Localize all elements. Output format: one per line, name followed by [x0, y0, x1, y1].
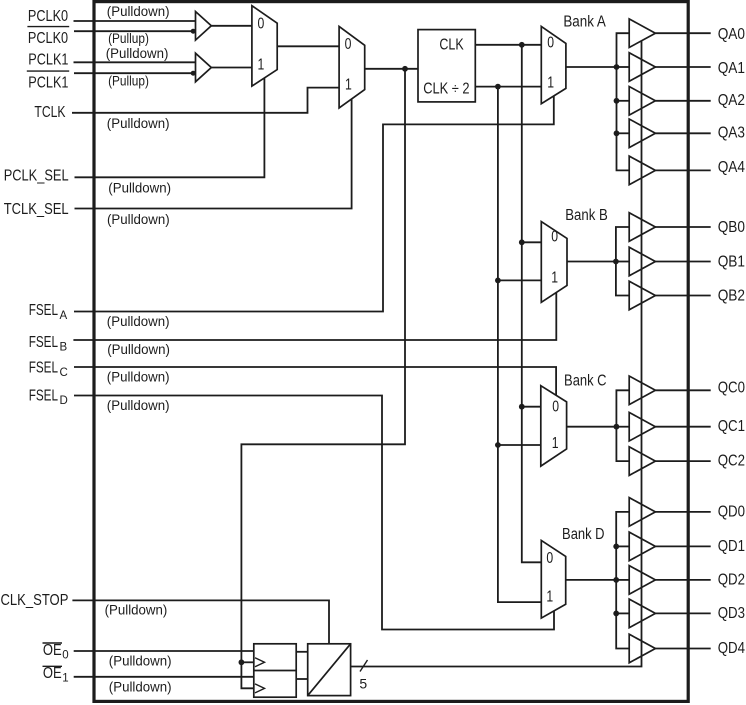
wire QC1 input [616, 426, 629, 428]
svg-text:QD0: QD0 [718, 503, 746, 520]
latch clock chevron upper [255, 658, 265, 667]
output buffer QA4 [629, 156, 655, 185]
svg-text:QA2: QA2 [718, 92, 745, 109]
output buffer QA3 [629, 119, 655, 148]
wire QC0 output [655, 389, 710, 391]
output buffer QA2 [629, 87, 655, 116]
wire enable bus to output buffers [351, 41, 642, 667]
junction dot QC bus at QC1 [614, 424, 620, 430]
pin label FSEL_C [29, 359, 68, 379]
svg-text:Bank B: Bank B [565, 207, 608, 224]
svg-text:PCLK0: PCLK0 [28, 30, 68, 47]
junction dot Bank B input 1 [495, 278, 501, 284]
svg-text:OE: OE [43, 642, 62, 659]
wire mux U2 output to divider [365, 68, 418, 70]
output buffer QB1 [629, 247, 655, 276]
svg-text:FSEL: FSEL [29, 388, 59, 405]
svg-text:QC2: QC2 [718, 453, 745, 470]
svg-text:TCLK_SEL: TCLK_SEL [4, 201, 69, 218]
wire buffer U3 output to mux U1 input 0 [211, 25, 252, 27]
wire PCLK_SEL to mux U1 select [75, 78, 265, 177]
pin label OE0 with overline [43, 642, 69, 662]
svg-text:QA3: QA3 [718, 125, 745, 142]
bus width slash mark [360, 660, 368, 672]
output buffer QD2 [629, 566, 655, 595]
wire buffer U4 output to mux U1 input 1 [211, 67, 252, 69]
wire QD0 output [655, 511, 710, 513]
wire Bank D mux output to QD bus [566, 579, 617, 581]
svg-text:C: C [60, 367, 68, 379]
output buffer QB2 [629, 281, 655, 310]
wire FSEL_A to Bank A mux select [74, 96, 554, 312]
wire QA1 output [655, 66, 710, 68]
svg-text:FSEL: FSEL [29, 334, 59, 351]
wire latch upper output to stop logic [296, 651, 308, 653]
output buffer QD1 [629, 532, 655, 561]
chip boundary border [94, 2, 688, 702]
wire Bank B mux output to QB bus [567, 261, 616, 263]
svg-text:5: 5 [359, 676, 367, 692]
output buffer QC2 [629, 447, 655, 476]
wire QD2 output [655, 579, 710, 581]
pin label OE1 with overline [43, 665, 69, 685]
output buffer QB0 [629, 213, 655, 242]
svg-text:1: 1 [546, 588, 553, 605]
wire QB input bus [616, 227, 630, 296]
wire PCLK0 input [74, 20, 196, 22]
wire QD3 output [655, 612, 710, 614]
wire TCLK to mux U2 input 1 [72, 88, 339, 113]
svg-text:QA4: QA4 [718, 159, 746, 176]
junction dot QD3 input [613, 611, 619, 617]
stop logic block with diagonal [308, 644, 351, 696]
wire PCLK1 input [74, 61, 196, 63]
svg-text:QD3: QD3 [718, 605, 745, 622]
svg-text:(Pulldown): (Pulldown) [107, 212, 170, 227]
wire CLK_STOP to stop logic [72, 600, 329, 643]
wire Bank B mux input 1 from CLK div 2 bus [498, 279, 541, 281]
wire FSEL_B to Bank B mux select [73, 292, 556, 340]
pin label FSEL_A [29, 302, 68, 322]
svg-text:(Pulldown): (Pulldown) [109, 680, 172, 695]
wire Bank C mux input 1 from CLK div 2 bus [498, 444, 541, 446]
pin label PCLK0 inverted with overline [27, 27, 69, 47]
pin label FSEL_D [29, 388, 68, 408]
svg-text:(Pullup): (Pullup) [108, 31, 149, 46]
output buffer QC1 [629, 412, 655, 441]
wire FSEL_D to Bank D mux select [74, 396, 554, 630]
wire QA2 output [655, 100, 710, 102]
wire QA3 output [655, 132, 710, 134]
svg-text:QB1: QB1 [718, 254, 745, 271]
svg-text:1: 1 [258, 57, 265, 74]
svg-text:0: 0 [551, 229, 558, 246]
svg-text:QA0: QA0 [718, 26, 746, 43]
svg-text:QB0: QB0 [718, 219, 746, 236]
pin label PCLK1 inverted with overline [27, 71, 69, 92]
junction dot Bank C input 1 [495, 442, 501, 448]
wire QD4 output [655, 648, 710, 650]
wire Bank C mux input 0 from CLK bus [522, 406, 541, 408]
wire CLK vertical bus [522, 45, 542, 563]
divider block CLK / CLK div 2 [418, 30, 475, 102]
svg-text:QC1: QC1 [718, 418, 745, 435]
wire QD2 input [616, 579, 629, 581]
junction dot CLK bus tap [519, 42, 525, 48]
wire mux U1 output to mux U2 input 0 [277, 45, 339, 47]
svg-text:1: 1 [551, 269, 558, 286]
svg-text:CLK ÷ 2: CLK ÷ 2 [423, 81, 469, 98]
junction dot QA bus at QA1 [614, 64, 620, 70]
wire QD input bus [616, 512, 629, 649]
wire QA1 input [617, 66, 630, 68]
wire QA input bus [617, 33, 630, 170]
output buffer QD3 [629, 599, 655, 628]
svg-text:QD4: QD4 [718, 640, 746, 657]
junction dot QA3 input [614, 130, 620, 136]
svg-text:1: 1 [345, 77, 352, 94]
wire PCLK1 inverted input [74, 72, 196, 74]
svg-text:(Pulldown): (Pulldown) [107, 398, 170, 413]
OE latch block [254, 644, 296, 697]
svg-text:(Pulldown): (Pulldown) [107, 4, 170, 19]
mux U1 PCLK0/PCLK1 select [252, 6, 277, 86]
inverting input dot PCLK0 [191, 29, 196, 34]
wire CLK div 2 output to Bank A mux input 1 [475, 86, 541, 88]
wire OE0 input to latch [74, 650, 254, 652]
svg-text:1: 1 [547, 74, 554, 91]
junction dot Bank C input 0 [519, 404, 525, 410]
svg-text:0: 0 [62, 650, 68, 662]
wire QD1 input [616, 545, 629, 547]
svg-text:(Pulldown): (Pulldown) [107, 116, 170, 131]
svg-text:0: 0 [552, 399, 559, 416]
junction dot QD bus at QD2 [613, 577, 619, 583]
svg-text:CLK_STOP: CLK_STOP [1, 592, 69, 609]
svg-text:B: B [60, 342, 68, 354]
svg-text:(Pulldown): (Pulldown) [109, 654, 172, 669]
svg-text:0: 0 [546, 550, 553, 567]
junction dot latch clock branch [239, 659, 245, 665]
svg-text:FSEL: FSEL [29, 302, 59, 319]
wire QD1 output [655, 545, 710, 547]
mux Bank D [541, 540, 565, 618]
wire CLK output to Bank A mux input 0 [475, 44, 541, 46]
wire QD3 input [616, 612, 629, 614]
mux U2 PCLK/TCLK select [339, 26, 365, 108]
wire Bank B mux input 0 from CLK bus [522, 241, 542, 243]
svg-text:(Pullup): (Pullup) [108, 74, 149, 89]
svg-text:QB2: QB2 [718, 288, 745, 305]
svg-text:PCLK_SEL: PCLK_SEL [4, 168, 69, 185]
junction dot Bank B input 0 [519, 239, 525, 245]
svg-text:(Pulldown): (Pulldown) [108, 181, 171, 196]
svg-text:Bank A: Bank A [563, 13, 606, 30]
svg-text:0: 0 [258, 15, 265, 32]
wire FSEL_C to Bank C mux select [74, 367, 556, 395]
junction dot CLK div 2 bus tap [495, 84, 501, 90]
wire QA0 output [655, 32, 710, 34]
mux Bank A [541, 26, 566, 103]
svg-text:PCLK1: PCLK1 [28, 52, 68, 69]
wire QC1 output [655, 426, 710, 428]
svg-text:CLK: CLK [439, 36, 464, 53]
svg-text:TCLK: TCLK [34, 104, 66, 121]
wire QA4 output [655, 169, 710, 171]
junction dot QD1 input [613, 544, 619, 550]
svg-text:FSEL: FSEL [29, 359, 59, 376]
svg-text:OE: OE [43, 665, 62, 682]
wire QB2 output [655, 295, 710, 297]
inverting input dot PCLK1 [191, 71, 196, 76]
wire PCLK0 inverted input [74, 30, 196, 32]
wire QB1 output [655, 261, 710, 263]
svg-text:QC0: QC0 [718, 380, 746, 397]
wire QB1 input [616, 261, 630, 263]
svg-text:(Pulldown): (Pulldown) [105, 603, 168, 618]
svg-text:0: 0 [547, 34, 554, 51]
svg-text:PCLK1: PCLK1 [28, 75, 68, 92]
latch clock chevron lower [255, 684, 265, 693]
wire QA3 input [617, 132, 630, 134]
svg-text:QA1: QA1 [718, 60, 745, 77]
output buffer QD0 [629, 498, 655, 527]
junction dot clock tap to OE latches [402, 66, 408, 72]
svg-text:Bank D: Bank D [562, 526, 605, 543]
svg-text:1: 1 [552, 435, 559, 452]
wire Bank C mux output to QC bus [567, 426, 617, 428]
wire QC2 output [655, 460, 710, 462]
output buffer QA0 [629, 19, 655, 48]
wire OE1 input to latch [74, 676, 254, 678]
mux Bank B [541, 222, 567, 303]
wire QA2 input [617, 100, 630, 102]
wire CLK div 2 vertical bus [498, 87, 541, 603]
svg-text:(Pulldown): (Pulldown) [107, 314, 170, 329]
junction dot QA2 input [614, 98, 620, 104]
output buffer QD4 [629, 634, 655, 663]
wire clock tap to OE latch clocks [241, 69, 405, 689]
wire QB0 output [655, 226, 710, 228]
pin label FSEL_B [29, 334, 68, 354]
mux Bank C [541, 386, 567, 466]
wire TCLK_SEL to mux U2 select [75, 99, 352, 209]
svg-text:PCLK0: PCLK0 [28, 8, 68, 25]
svg-text:QD2: QD2 [718, 571, 745, 588]
svg-text:A: A [60, 310, 68, 322]
wire Bank A mux output to QA bus [566, 66, 617, 68]
junction dot QB bus at QB1 [613, 259, 619, 265]
wire latch lower output to stop logic [296, 678, 308, 680]
differential input buffer U4 (PCLK1) [196, 53, 212, 82]
output buffer QC0 [629, 376, 655, 405]
svg-text:Bank C: Bank C [564, 372, 607, 389]
svg-text:(Pulldown): (Pulldown) [107, 342, 170, 357]
svg-text:1: 1 [62, 673, 68, 685]
svg-text:QD1: QD1 [718, 538, 745, 555]
differential input buffer U3 (PCLK0) [196, 12, 212, 41]
svg-text:0: 0 [345, 36, 352, 53]
svg-text:(Pulldown): (Pulldown) [107, 370, 170, 385]
output buffer QA1 [629, 53, 655, 82]
svg-text:D: D [60, 395, 68, 407]
wire QC input bus [616, 390, 629, 461]
svg-text:(Pulldown): (Pulldown) [106, 46, 169, 61]
wire latch clock branch upper [241, 661, 253, 663]
